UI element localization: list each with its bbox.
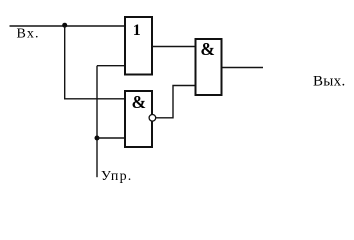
OR gate U1 "1" [125, 17, 152, 75]
inversion bubble on NAND output [149, 115, 156, 122]
node: junction dot on Вх. line [62, 23, 67, 28]
svg-text:Вх.: Вх. [17, 27, 40, 42]
wire: Упр. control vertical line [96, 66, 98, 178]
wire: output line [223, 67, 264, 69]
wire: NAND output up to AND gate lower input [156, 86, 195, 118]
AND gate U3 "&" [196, 39, 222, 95]
wire: OR gate output to AND gate upper input [153, 46, 196, 48]
NAND gate U2 "&" [125, 91, 152, 147]
svg-text:Вых.: Вых. [313, 74, 346, 90]
svg-text:&: & [132, 92, 147, 112]
wire: Упр. branch to OR gate lower input [97, 65, 124, 67]
svg-text:1: 1 [133, 22, 141, 39]
wire: branch from Вх. junction down to NAND top input [65, 26, 124, 99]
svg-text:&: & [200, 39, 215, 59]
wire: Упр. branch to NAND lower input [97, 137, 124, 139]
node: junction dot on Упр. line [95, 136, 100, 141]
wire: Вх. input line [10, 25, 125, 27]
svg-text:Упр.: Упр. [101, 169, 132, 184]
